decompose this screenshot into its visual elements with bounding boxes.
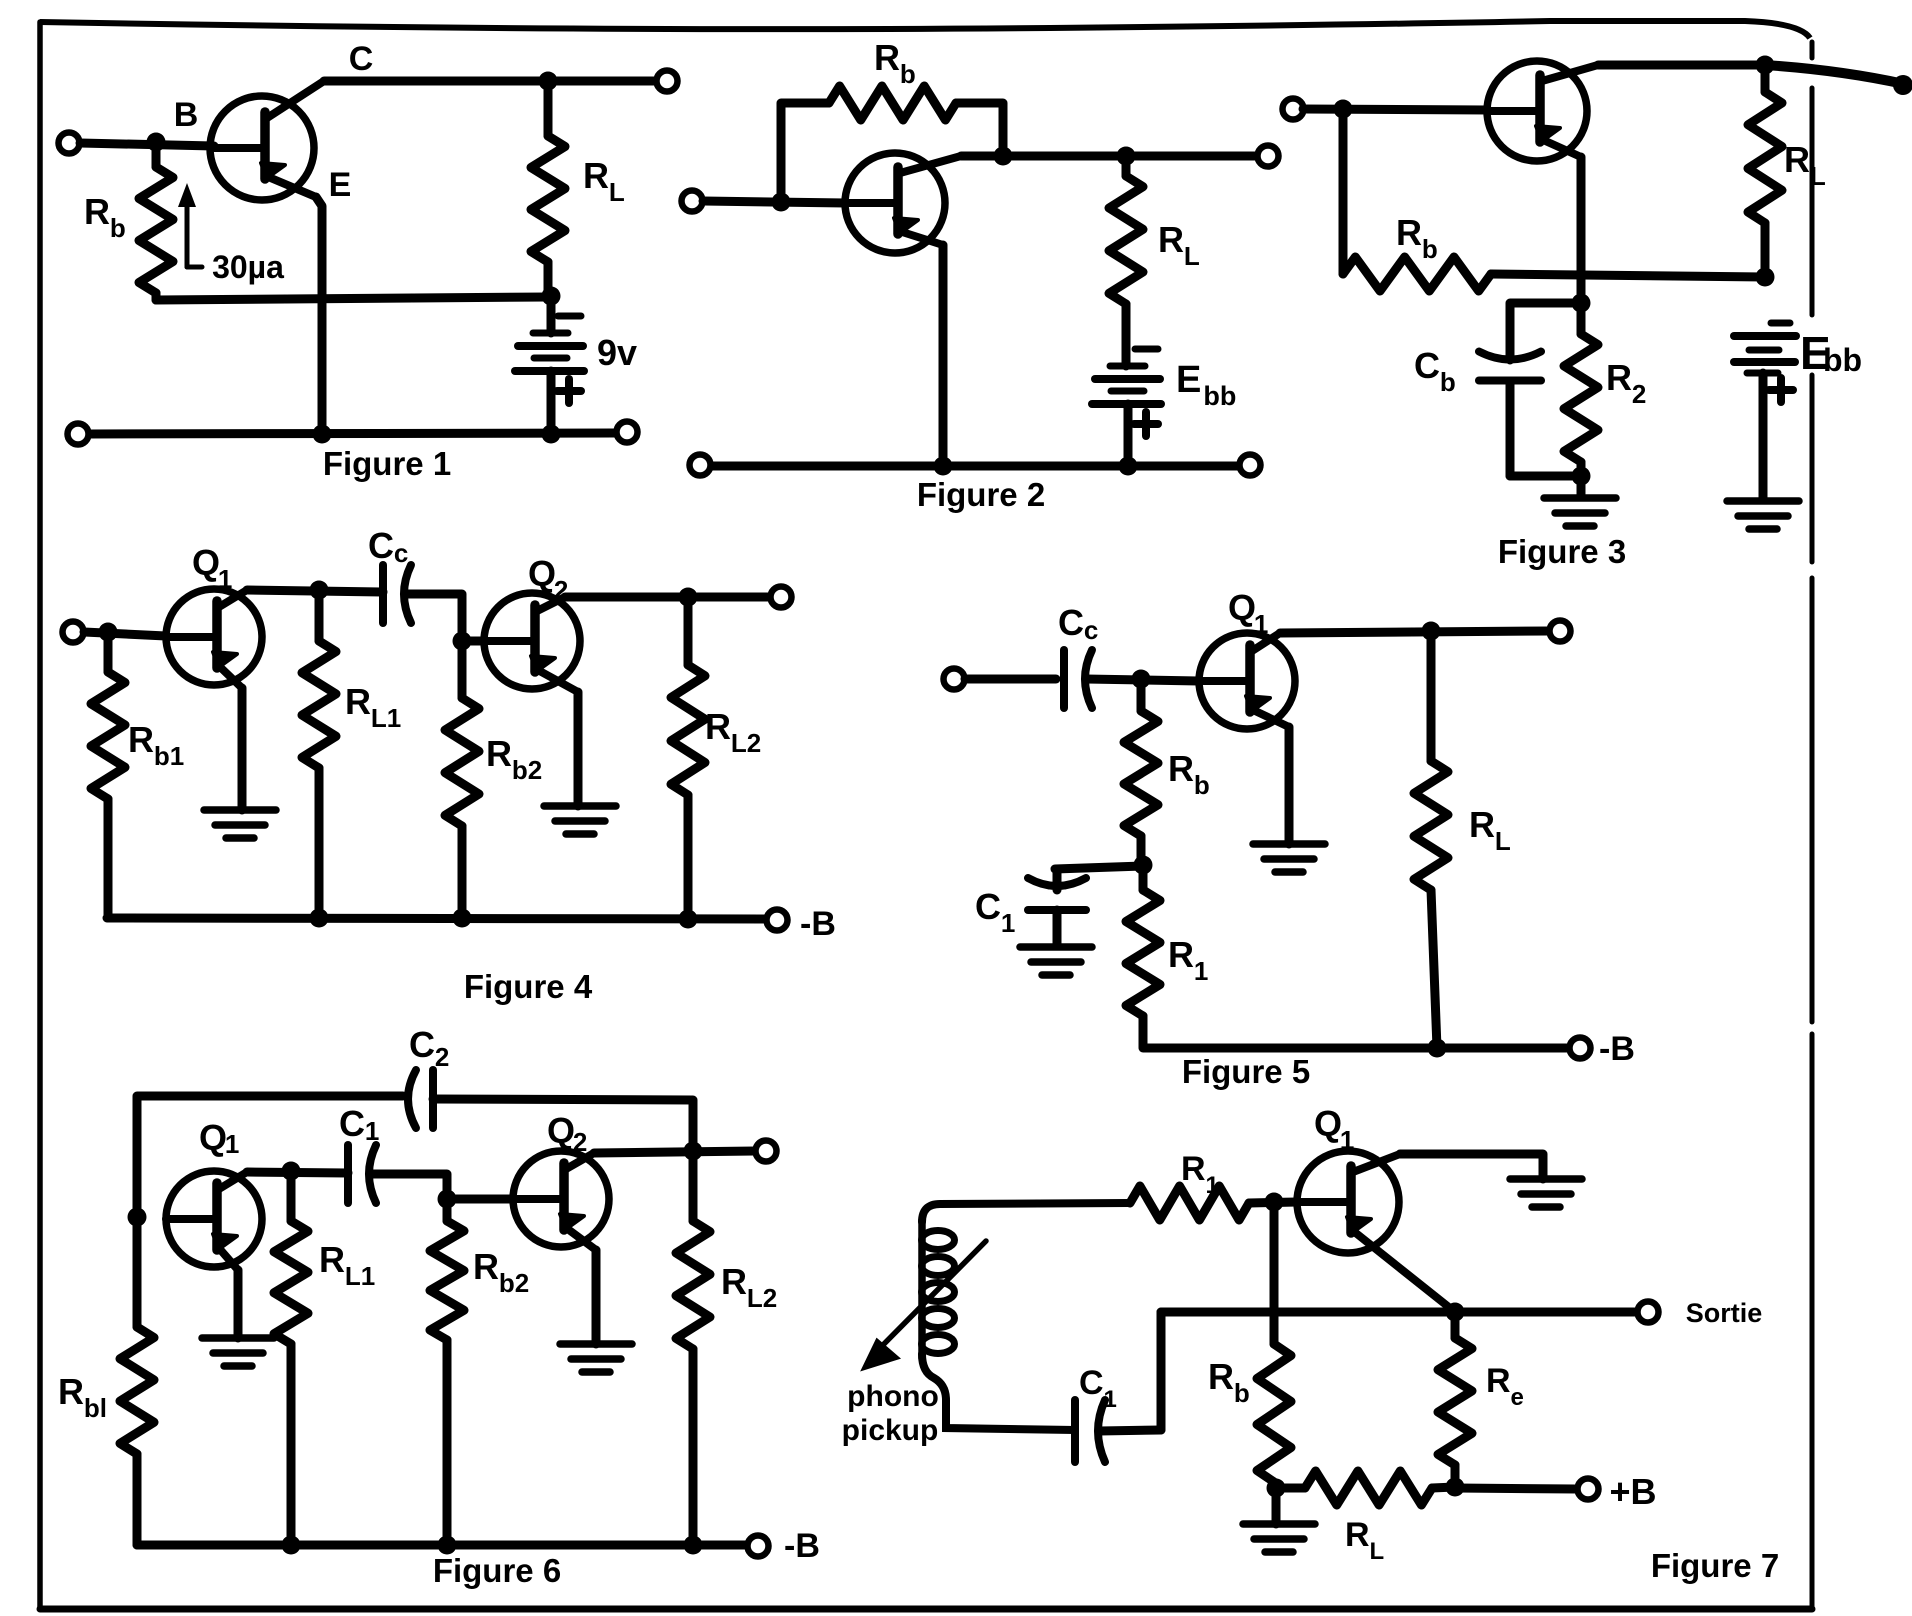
wire Q2 emitter to ground Fig6 [592, 1250, 601, 1344]
wire collector to ground Fig7 [1400, 1154, 1543, 1179]
battery Ebb Fig3 [1734, 323, 1796, 402]
svg-text:R: R [1168, 748, 1194, 789]
resistor RL2 Fig4 [671, 597, 705, 919]
svg-text:L2: L2 [731, 728, 761, 758]
svg-text:e: e [1510, 1384, 1523, 1411]
ground C1 Fig5 [1020, 947, 1092, 975]
transistor Q1 Fig4 [166, 589, 262, 688]
svg-text:R: R [1345, 1516, 1370, 1554]
resistor Re Fig7 [1438, 1312, 1472, 1487]
svg-text:9v: 9v [597, 332, 637, 373]
svg-text:R: R [1158, 219, 1184, 260]
transistor Q1 Fig6 [166, 1171, 262, 1270]
node rail RL1 Fig6 [282, 1536, 301, 1555]
svg-text:b: b [1234, 1378, 1250, 1408]
svg-text:1: 1 [225, 1129, 239, 1159]
wire collector to output Fig5 [1280, 631, 1549, 633]
transistor Q1 Fig7 [1297, 1151, 1455, 1312]
svg-text:L1: L1 [345, 1261, 375, 1291]
node base/Rb junction Fig5 [1132, 670, 1151, 689]
node RL1 top Fig6 [282, 1162, 301, 1181]
svg-text:R: R [128, 719, 154, 760]
resistor Rb Fig7 [1257, 1344, 1291, 1488]
terminal output Fig6 [756, 1141, 777, 1162]
node base junction Fig4 Q2 [453, 632, 472, 651]
resistor RL1 Fig4 [302, 590, 336, 918]
wire node to battery [547, 296, 556, 333]
svg-text:R: R [1168, 934, 1194, 975]
node emitter/rail junction [313, 425, 332, 444]
svg-text:1: 1 [218, 564, 232, 594]
svg-text:Figure 6: Figure 6 [433, 1552, 561, 1589]
wire coil top to R1 [922, 1203, 1130, 1222]
wire battery to ground Fig3 [1759, 373, 1768, 499]
terminal output Fig1 [657, 71, 678, 92]
resistor Rb Fig3 (horizontal) [1343, 257, 1491, 291]
svg-text:R: R [345, 681, 371, 722]
wire C1 to Sortie corner [1099, 1430, 1161, 1431]
svg-text:bb: bb [1823, 342, 1862, 378]
terminal input Figure 3 [1283, 99, 1304, 120]
node base junction Fig7 [1265, 1193, 1284, 1212]
transistor Q Fig3 [1487, 61, 1598, 161]
transistor Q Fig1 [210, 81, 324, 200]
ground Rb Fig7 [1243, 1524, 1315, 1552]
node RL/rail junction Fig5 [1428, 1039, 1447, 1058]
node RL/Re junction Fig7 [1446, 1478, 1465, 1497]
svg-text:2: 2 [573, 1127, 587, 1157]
wire Cc to base Fig5 [1086, 679, 1199, 681]
svg-text:E: E [329, 166, 352, 204]
bottom rail Fig2 [712, 462, 1238, 471]
terminal output Fig4 [771, 587, 792, 608]
page border bottom [40, 1606, 1812, 1613]
wire base node up to feedback [781, 103, 829, 201]
wire input to base Fig3 [1303, 109, 1488, 110]
resistor RL1 Fig6 [274, 1171, 308, 1545]
svg-text:R: R [1208, 1356, 1234, 1397]
bottom rail Fig6 [137, 1541, 757, 1550]
resistor RL Fig3 [1748, 65, 1782, 276]
terminal input Figure 4 [63, 622, 84, 643]
svg-text:R: R [1396, 212, 1422, 253]
battery 9v Fig1 [515, 316, 584, 403]
resistor Rb Fig5 [1124, 679, 1158, 865]
svg-text:C: C [339, 1103, 365, 1144]
node base junction Fig3 [1334, 100, 1353, 119]
page border left [37, 22, 43, 1609]
capacitor C1 Fig7 [1075, 1400, 1105, 1462]
node base junction Q2 Fig6 [438, 1190, 457, 1209]
svg-text:L1: L1 [371, 703, 401, 733]
wire input to base node [80, 143, 214, 146]
node battery/rail junction [542, 425, 561, 444]
svg-text:E: E [1176, 359, 1201, 401]
resistor RL Fig2 [1109, 156, 1143, 366]
node rail RL1 [310, 909, 329, 928]
terminal output Fig2 [1258, 146, 1279, 167]
wire Q2 emitter to ground [574, 692, 583, 806]
wire base node down to Rb Fig7 [1270, 1202, 1279, 1344]
svg-text:L: L [609, 177, 625, 207]
svg-text:R: R [473, 1246, 499, 1287]
wire emitter down Fig3 [1577, 157, 1586, 303]
wire input to base [703, 201, 846, 203]
svg-text:b: b [1440, 367, 1456, 397]
wire Q1 collector to Cc [247, 590, 383, 592]
capacitor C2 Fig6 [408, 1070, 433, 1128]
svg-text:Q: Q [192, 542, 220, 583]
svg-text:C: C [1414, 345, 1440, 386]
wire RL Fig5 [1414, 631, 1448, 1048]
page border right (dashed) [1810, 42, 1815, 1609]
wire to ground Fig3 [1577, 476, 1586, 497]
node RL1 top junction [310, 581, 329, 600]
node collector/RL junction [539, 72, 558, 91]
ground Q2 Fig4 [544, 806, 616, 834]
svg-text:Sortie: Sortie [1686, 1298, 1763, 1328]
resistor Rb2 Fig6 [430, 1199, 464, 1545]
svg-text:L: L [1810, 161, 1826, 191]
svg-text:R: R [58, 1371, 84, 1412]
terminal bottom left Fig1 [68, 424, 89, 445]
svg-text:C: C [1058, 602, 1084, 643]
terminal input Figure 5 [944, 669, 965, 690]
capacitor Cc Fig4 [383, 565, 411, 623]
wire collector to output [961, 152, 1257, 161]
svg-text:R: R [1606, 357, 1632, 398]
node Rb/RL/ground junction Fig7 [1267, 1479, 1286, 1498]
svg-text:L: L [1184, 241, 1200, 271]
node base junction Fig1 [147, 133, 166, 152]
node emitter/R2/Cb junction [1572, 294, 1591, 313]
svg-text:Figure 2: Figure 2 [917, 476, 1045, 513]
ground Fig3 right [1727, 501, 1799, 529]
wire input to base Fig4 [84, 632, 166, 636]
node R2/ground junction [1572, 467, 1591, 486]
svg-text:Figure 7: Figure 7 [1651, 1547, 1779, 1584]
svg-text:R: R [1469, 804, 1495, 845]
node base junction Fig2 [772, 193, 791, 212]
node collector/RL junction Fig3 [1756, 56, 1775, 75]
svg-text:R: R [486, 733, 512, 774]
wire Cc to Q2 base [405, 594, 462, 641]
wire coil bottom to C1 [922, 1354, 1075, 1430]
resistor RL Fig7 (horizontal) [1276, 1471, 1455, 1505]
terminal bottom right Fig1 [617, 422, 638, 443]
resistor Rb Fig2 (feedback) [829, 86, 956, 120]
svg-text:Q: Q [199, 1117, 227, 1158]
arrow 30ua current [178, 183, 202, 267]
svg-text:b2: b2 [499, 1268, 529, 1298]
top feedback rail Fig6 [137, 1096, 403, 1217]
svg-text:C: C [409, 1024, 435, 1065]
capacitor C1 Fig5 [1028, 866, 1143, 946]
svg-text:L2: L2 [747, 1283, 777, 1313]
resistor Rb Fig1 [139, 142, 173, 300]
svg-text:L: L [1369, 1538, 1384, 1565]
svg-text:R: R [874, 37, 900, 78]
svg-text:Q: Q [1228, 587, 1256, 628]
svg-text:b: b [900, 59, 916, 89]
wire to +B terminal [1455, 1488, 1576, 1489]
wire Rb bottom to battery node [156, 297, 548, 300]
svg-text:C: C [975, 886, 1001, 927]
svg-text:bl: bl [84, 1393, 107, 1423]
resistor R1 Fig7 (horizontal) [1130, 1186, 1249, 1220]
svg-text:-B: -B [1599, 1030, 1635, 1068]
resistor RL Fig1 [531, 81, 565, 293]
node rail Rb2 [453, 909, 472, 928]
node collector/RL junction Fig2 [1117, 147, 1136, 166]
resistor RL2 Fig6 [676, 1151, 710, 1545]
node RL top Fig5 [1422, 622, 1441, 641]
svg-text:L: L [1495, 826, 1511, 856]
wire Rb to emitter/battery node [1491, 274, 1765, 277]
svg-text:1: 1 [365, 1116, 379, 1146]
capacitor C1 Fig6 [348, 1145, 376, 1203]
terminal output Fig5 [1550, 621, 1571, 642]
svg-text:R: R [705, 706, 731, 747]
wire Q1 emitter to ground [238, 688, 247, 810]
svg-text:2: 2 [1632, 379, 1646, 409]
transistor Q Fig2 [845, 153, 961, 253]
node RL2 top junction [679, 588, 698, 607]
svg-text:1: 1 [1103, 1386, 1116, 1413]
svg-text:b: b [1422, 234, 1438, 264]
bottom rail Fig1 [89, 433, 615, 434]
node RL/battery junction Fig3 [1756, 268, 1775, 287]
svg-text:R: R [1784, 139, 1810, 180]
svg-text:1: 1 [1340, 1125, 1354, 1155]
svg-text:Q: Q [547, 1110, 575, 1151]
svg-text:30µa: 30µa [212, 249, 284, 285]
node battery top junction [542, 287, 561, 306]
resistor R2 Fig3 [1564, 303, 1598, 476]
wire Q2 collector to output Fig6 [594, 1151, 755, 1153]
svg-text:R: R [319, 1239, 345, 1280]
svg-text:C: C [368, 525, 394, 566]
svg-text:Q: Q [1314, 1103, 1342, 1144]
resistor Rb2 Fig4 [445, 641, 479, 918]
svg-text:1: 1 [1001, 908, 1015, 938]
svg-text:Figure 3: Figure 3 [1498, 533, 1626, 570]
wire emitter to bottom rail [316, 197, 322, 434]
capacitor Cc Fig5 [1064, 650, 1092, 708]
phono pickup coil [922, 1220, 955, 1358]
svg-text:1: 1 [1205, 1172, 1218, 1199]
svg-text:1: 1 [1194, 956, 1208, 986]
wire battery to bottom rail Fig2 [1124, 404, 1133, 466]
svg-text:pickup: pickup [842, 1414, 939, 1447]
arrow phono pickup pointer [863, 1241, 986, 1369]
battery Ebb Fig2 [1092, 349, 1161, 436]
node Rb/C1/R1 junction Fig5 [1134, 856, 1153, 875]
svg-text:b: b [1194, 770, 1210, 800]
wire emitter down Fig2 [939, 245, 948, 466]
transistor Q2 Fig6 [513, 1151, 609, 1250]
svg-text:R: R [84, 191, 110, 232]
svg-text:b: b [110, 213, 126, 243]
wire Sortie output [1161, 1308, 1637, 1317]
svg-text:bb: bb [1203, 381, 1236, 411]
terminal +B Fig7 [1578, 1479, 1599, 1500]
svg-text:C: C [349, 40, 374, 78]
svg-text:C: C [1079, 1364, 1104, 1402]
svg-text:R: R [1181, 1150, 1206, 1188]
capacitor Cb Fig3 [1479, 303, 1581, 476]
wire C2 to right rail [433, 1099, 693, 1151]
bottom rail Fig4 [107, 918, 766, 919]
resistor R1 Fig5 [1126, 865, 1160, 1047]
node collector/right rail junction Fig6 [684, 1142, 703, 1161]
node battery/rail Fig2 [1119, 457, 1138, 476]
node emitter/rail Fig2 [934, 457, 953, 476]
resistor Rb1 Fig4 [91, 632, 125, 918]
terminal bottom right Fig2 [1240, 455, 1261, 476]
svg-text:2: 2 [435, 1042, 449, 1072]
terminal Sortie [1638, 1302, 1659, 1323]
node base junction Q1 Fig6 [128, 1208, 147, 1227]
terminal -B Fig6 [748, 1536, 769, 1557]
wire node to Q2 Fig6 [447, 1195, 513, 1204]
wire Rb to collector node [956, 103, 1003, 152]
wire Q2 collector to output [565, 593, 770, 602]
wire collector to output [324, 77, 656, 86]
wire to ground Fig7 [1272, 1488, 1281, 1524]
ground Q1 Fig4 [204, 810, 276, 838]
wire collector to RL top [1598, 61, 1765, 70]
node feedback/collector junction [994, 147, 1013, 166]
svg-text:c: c [394, 538, 408, 568]
svg-text:b1: b1 [154, 741, 184, 771]
svg-text:+B: +B [1609, 1471, 1656, 1512]
page border top [40, 21, 1810, 38]
wire Q1 collector to C1 [247, 1172, 348, 1173]
svg-text:c: c [1084, 615, 1098, 645]
resistor Rb1 Fig6 [120, 1217, 154, 1545]
svg-text:Figure 5: Figure 5 [1182, 1053, 1310, 1090]
wire node to Q2 [462, 637, 484, 646]
transistor Q2 Fig4 [484, 593, 580, 692]
wire Q1 emitter to ground Fig6 [234, 1270, 243, 1338]
svg-text:phono: phono [847, 1380, 939, 1413]
terminal -B Fig5 [1570, 1038, 1591, 1059]
svg-text:R: R [1486, 1362, 1511, 1400]
ground emitter Fig5 [1253, 844, 1325, 872]
bottom rail Fig5 [1143, 1044, 1568, 1053]
svg-text:b2: b2 [512, 755, 542, 785]
node rail RL2 Fig6 [684, 1536, 703, 1555]
node emitter/Sortie junction [1446, 1303, 1465, 1322]
node rail RL2 [679, 910, 698, 929]
wire base node down to Rb [1339, 109, 1348, 274]
svg-text:B: B [174, 96, 199, 134]
wire C1 to Q2 base [371, 1174, 447, 1199]
terminal input Figure 1 [59, 133, 80, 154]
svg-text:-B: -B [800, 905, 836, 943]
svg-text:Figure 4: Figure 4 [464, 968, 593, 1005]
svg-text:Q: Q [528, 553, 556, 594]
transistor Q1 Fig5 [1199, 633, 1295, 729]
node rail Rb2 Fig6 [438, 1536, 457, 1555]
svg-text:1: 1 [1254, 609, 1268, 639]
terminal input Figure 2 [682, 191, 703, 212]
wire R1 to base node Fig7 [1249, 1202, 1297, 1203]
svg-text:-B: -B [784, 1527, 820, 1565]
node base junction Fig4 Q1 [99, 623, 118, 642]
svg-text:R: R [721, 1261, 747, 1302]
svg-text:Figure 1: Figure 1 [323, 445, 451, 482]
ground collector Fig7 [1510, 1179, 1582, 1207]
terminal -B Fig4 [767, 910, 788, 931]
svg-text:R: R [583, 155, 609, 196]
ground Q2 Fig6 [560, 1344, 632, 1372]
terminal bottom left Fig2 [690, 455, 711, 476]
wire collector continuing off page [1765, 65, 1904, 84]
wire input to Cc Fig5 [965, 675, 1056, 684]
wire emitter to ground Fig5 [1285, 727, 1294, 844]
wire Sortie corner down to C1 [1157, 1312, 1166, 1430]
ground Fig3 left [1544, 498, 1616, 526]
ground Q1 Fig6 [202, 1338, 274, 1366]
wire battery to bottom rail [547, 371, 556, 434]
